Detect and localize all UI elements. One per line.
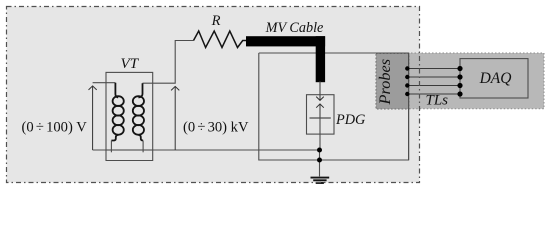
wire bottom rail [93,149,320,151]
PDG plate electrode [310,117,331,119]
test cell enclosure (dashed box) [7,7,420,183]
ground symbol [311,178,330,183]
PDG box [307,95,335,134]
svg-text:MV Cable: MV Cable [265,20,324,36]
resistor R [194,31,247,48]
svg-text:(0÷100) V: (0÷100) V [22,119,88,135]
wire primary top [93,82,116,84]
dashed border of test cell (on top) [7,7,420,183]
secondary bottom lead [142,141,144,153]
DAQ input nodes [457,66,462,97]
voltage arrow (0÷100)V [89,86,97,150]
DAQ system enclosure (dotted gray box) [376,53,544,109]
transformer VT box [106,72,153,150]
wire over probes box (loop rect edges) [376,53,409,160]
MV cable thick bar [246,36,325,46]
DAQ box [460,59,528,98]
wire secondary top to resistor [143,41,194,84]
svg-text:Probes: Probes [375,59,394,106]
transformer primary winding [111,83,123,141]
junction node at PDG ground [317,148,322,153]
junction node at bottom rail [317,158,322,163]
probe nodes [405,66,409,96]
svg-text:DAQ: DAQ [479,70,512,87]
transmission lines TLs [407,69,460,95]
PDG entry wire and down arrow [316,81,324,100]
svg-text:PDG: PDG [335,112,366,128]
svg-text:VT: VT [121,56,140,72]
wire to ground [319,150,321,176]
wire loop rectangle [259,53,409,160]
transformer secondary winding [133,83,144,140]
svg-text:TLs: TLs [426,93,449,109]
svg-text:(0÷30) kV: (0÷30) kV [183,119,249,135]
svg-text:R: R [211,13,221,29]
primary bottom lead [110,141,112,153]
probes box [376,54,409,110]
voltage arrow (0÷30)kV [171,86,179,150]
wire transformer bottom jumper [106,150,153,161]
PDG needle up arrow [316,104,324,118]
PDG bottom lead [319,118,321,150]
